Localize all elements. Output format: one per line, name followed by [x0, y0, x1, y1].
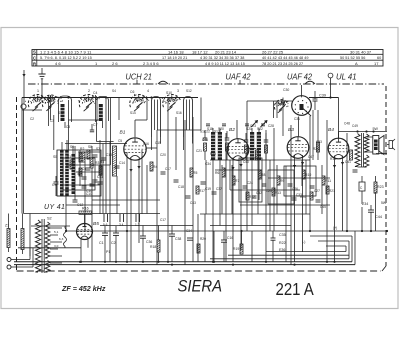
tube B3 grid top lead	[298, 117, 300, 137]
svg-text:C31: C31	[294, 117, 300, 121]
top wire pot to B4 grid	[309, 97, 339, 99]
svg-text:R15: R15	[210, 152, 216, 156]
tube B1 (UCH 21)	[124, 138, 146, 160]
wire hop on chassis line	[158, 81, 315, 84]
loudspeaker cone	[379, 136, 384, 155]
label C6	[130, 90, 134, 94]
tube label UCH 21	[126, 72, 152, 81]
capacitor C37	[212, 187, 223, 194]
svg-text:R23: R23	[377, 185, 384, 189]
label C33	[316, 140, 322, 144]
speaker secondary wire	[367, 137, 373, 152]
tube B1 cathode legs	[131, 159, 139, 263]
switch contact group 5-6	[103, 214, 108, 227]
tick under UCH 21 label	[136, 80, 138, 84]
antenna lead-in wire	[23, 77, 25, 104]
wire vertical x110	[109, 142, 111, 262]
svg-text:C30: C30	[283, 88, 289, 92]
svg-text:C16: C16	[227, 236, 233, 240]
wire detector net d	[276, 165, 278, 214]
svg-text:C48: C48	[344, 122, 350, 126]
wire vertical x286	[285, 166, 287, 262]
svg-text:5W: 5W	[373, 127, 379, 131]
bottom vertical x252	[251, 231, 253, 262]
switch position digit 3	[177, 89, 179, 93]
svg-text:C6: C6	[130, 90, 134, 94]
wire horizontal y120 left	[69, 120, 100, 142]
wire vertical x147	[146, 98, 148, 121]
svg-text:R3: R3	[95, 161, 99, 165]
svg-text:3,0: 3,0	[54, 244, 59, 248]
aerial coil S1 winding	[61, 104, 65, 121]
resistor R10	[302, 170, 311, 179]
alignment arrow at IFT1	[251, 120, 258, 127]
chassis boundary right dashed line	[382, 86, 386, 271]
capacitor C3	[86, 163, 95, 170]
svg-text:30 31 40 37: 30 31 40 37	[350, 50, 372, 55]
mains transformer heater winding	[45, 261, 50, 273]
svg-text:S11: S11	[58, 111, 64, 115]
label C10c	[86, 192, 92, 196]
capacitor C cathode B4	[353, 170, 358, 172]
label R22	[279, 241, 286, 245]
bus nested corner verticals	[346, 231, 355, 265]
tube B2 diode lead	[247, 148, 256, 150]
svg-text:C16: C16	[143, 142, 149, 146]
svg-text:S12: S12	[186, 89, 192, 93]
table row S values	[40, 50, 372, 55]
label S16	[176, 111, 182, 115]
oscillator network box a	[57, 150, 101, 196]
detector network box a	[239, 158, 262, 202]
wire vertical x291	[290, 125, 292, 265]
svg-text:C37: C37	[216, 187, 222, 191]
ground symbol	[38, 68, 45, 79]
svg-text:C43: C43	[190, 201, 196, 205]
label C34	[205, 162, 211, 166]
wire horizontal y225 left	[100, 225, 193, 227]
alignment arrow at IFT2	[261, 120, 268, 127]
IF transformer 1 secondary winding S19	[218, 132, 222, 160]
svg-text:6,3: 6,3	[59, 237, 64, 241]
svg-text:S10: S10	[166, 91, 172, 95]
top HT wire	[22, 97, 198, 99]
resistor R5	[190, 168, 197, 177]
output transformer bottom wire	[358, 153, 388, 167]
svg-text:C13: C13	[106, 153, 112, 157]
svg-text:50 51 52 55 56: 50 51 52 55 56	[340, 56, 365, 60]
capacitor C12b	[90, 184, 95, 186]
svg-text:S8: S8	[88, 145, 92, 149]
wire vertical x193 bottom	[192, 231, 194, 262]
oscillator coil label S5	[53, 155, 57, 159]
bottom cluster component C35	[271, 231, 276, 262]
resistor R2	[80, 147, 85, 162]
tube B1 label	[120, 130, 126, 136]
svg-text:C21: C21	[196, 149, 202, 153]
junction dots on y231	[309, 230, 388, 232]
resistor R3b	[87, 150, 90, 159]
svg-text:R2: R2	[80, 147, 84, 151]
svg-text:S13: S13	[214, 130, 220, 134]
label C28	[268, 124, 274, 128]
AVC network box	[284, 166, 316, 196]
tube label UAF 42 (first)	[226, 72, 252, 81]
svg-text:E36: E36	[279, 248, 285, 252]
wire vertical x66	[65, 196, 67, 231]
capacitor C11	[93, 175, 104, 182]
label S11	[58, 111, 64, 115]
svg-text:R4: R4	[153, 165, 157, 169]
svg-text:UCH 21: UCH 21	[126, 72, 152, 81]
wire horizontal y205	[240, 204, 330, 206]
svg-text:3: 3	[177, 89, 179, 93]
svg-text:78 20 21 23 24 25 26 27: 78 20 21 23 24 25 26 27	[262, 62, 303, 66]
wire horizontal y165	[66, 164, 110, 166]
oscillator padder coil winding	[72, 154, 76, 194]
wire horizontal y185 left	[60, 184, 100, 186]
RF coil S4 leads	[103, 97, 111, 214]
resistor R4	[150, 162, 157, 171]
svg-text:60: 60	[377, 56, 381, 60]
capacitor C17	[161, 167, 172, 174]
svg-text:5 6: 5 6	[103, 223, 108, 227]
svg-text:C10: C10	[86, 192, 92, 196]
svg-text:UL 41: UL 41	[336, 72, 357, 81]
oscillator coil loop S9	[184, 97, 193, 138]
switch S2 label	[47, 217, 52, 221]
resistor R21	[326, 186, 335, 194]
wire detector net e	[301, 160, 303, 186]
wire vertical x193	[192, 117, 194, 231]
capacitor C44	[368, 210, 382, 219]
resistor R4b	[99, 166, 102, 175]
label C47	[308, 155, 314, 159]
tube B2 label	[229, 127, 235, 133]
label S12 row	[200, 130, 220, 134]
resistor R cathode B3	[317, 142, 320, 152]
junction dots on y231 left	[65, 230, 243, 266]
wire vertical x310	[309, 116, 311, 231]
wire vertical x127	[126, 152, 128, 262]
junction dots on top wire	[41, 96, 332, 98]
label C34b	[186, 229, 192, 233]
wire detector net c	[257, 160, 259, 214]
wave-change switch S3 wafer	[78, 94, 100, 122]
tube B4 cathode legs	[335, 156, 343, 263]
wire vertical x30	[29, 214, 31, 257]
tube B5 label	[93, 221, 99, 227]
label C49	[352, 124, 358, 128]
external speaker socket	[387, 139, 395, 150]
svg-text:4: 4	[147, 89, 149, 93]
resistor R cathode B2	[256, 150, 259, 160]
wire vertical x283	[282, 98, 284, 137]
svg-text:S7: S7	[96, 147, 100, 151]
svg-text:A: A	[355, 61, 358, 66]
capacitor C10b	[93, 155, 98, 157]
svg-text:R18: R18	[150, 245, 156, 249]
svg-text:C25: C25	[266, 189, 272, 193]
wire horizontal y190	[230, 189, 300, 191]
svg-text:2 3 4 5 6: 2 3 4 5 6	[143, 61, 159, 66]
wire vertical x206	[205, 160, 207, 214]
wire horizontal y214 right	[200, 213, 310, 215]
resistor R20	[300, 192, 313, 200]
label S8	[88, 145, 92, 149]
label R3c	[100, 160, 104, 164]
trimmer C7 label	[93, 123, 98, 127]
oscillator coil S9 inner winding	[187, 100, 190, 131]
wire horizontal y196 left	[57, 195, 100, 197]
IFT2 grid trimmer stack	[244, 133, 249, 160]
wire osc h3	[66, 204, 120, 206]
svg-text:R: R	[33, 61, 36, 66]
switch contact group 3-4	[119, 214, 124, 227]
capacitor C16 label	[143, 142, 149, 146]
resistor R20 bottom	[197, 244, 200, 253]
svg-text:C7: C7	[93, 123, 98, 127]
output transformer hum-bucking winding	[364, 155, 369, 167]
resistor R19	[233, 231, 243, 254]
svg-text:C3: C3	[90, 163, 94, 167]
capacitor C27	[310, 186, 321, 193]
tube B4 anode lead to output transformer	[338, 132, 340, 139]
IF transformer 1 primary winding S18	[211, 132, 215, 160]
svg-text:C5: C5	[118, 139, 122, 143]
svg-text:B4: B4	[328, 127, 334, 133]
wire horizontal y170	[215, 169, 262, 171]
oscillator coil top leads	[62, 140, 73, 154]
wire vertical x117	[116, 176, 118, 214]
svg-text:Z34: Z34	[362, 202, 368, 206]
IFT1 anode trimmer stack	[225, 131, 230, 160]
svg-text:B1: B1	[120, 130, 126, 136]
capacitor C18	[174, 180, 185, 189]
tube B4 electrode arrows	[333, 162, 344, 168]
wire vertical x274	[273, 128, 275, 231]
bus line fourth	[228, 254, 349, 256]
tube B1 anode side lead	[146, 147, 157, 149]
resistor R1	[67, 155, 73, 169]
label C31	[294, 117, 300, 121]
tube B5 leads	[81, 214, 88, 262]
mains wires	[17, 226, 81, 267]
caption SIERA	[178, 278, 223, 296]
svg-text:C4: C4	[93, 91, 97, 95]
wire horizontal y143	[65, 142, 127, 144]
switch position digit 2	[88, 89, 90, 93]
wire vertical x230	[229, 160, 231, 190]
volume control potentiometer	[292, 85, 312, 116]
capacitor C45	[316, 200, 327, 209]
capacitor C10	[82, 186, 93, 193]
svg-text:1 2 3 4 5 6 4 8 10 15 7 9 11: 1 2 3 4 5 6 4 8 10 15 7 9 11	[40, 50, 92, 55]
svg-text:17: 17	[374, 61, 379, 66]
capacitor C9	[54, 176, 59, 196]
svg-text:R17: R17	[199, 189, 205, 193]
switch contact group 1-2	[135, 214, 140, 227]
table row R values	[55, 61, 379, 66]
label C3t	[50, 119, 54, 123]
speaker power label 5W	[373, 127, 379, 131]
wire horizontal y231 long	[66, 230, 387, 232]
svg-text:C35: C35	[279, 233, 286, 237]
aerial coil S1 leads	[65, 100, 69, 150]
label C8	[66, 125, 70, 129]
resistor R6	[215, 168, 225, 177]
table row S header	[33, 50, 36, 55]
IF transformer 1 leads	[213, 128, 220, 262]
svg-text:(-): (-)	[302, 240, 305, 244]
tube B4 (UL 41)	[328, 138, 349, 159]
wave-change switch S7 wafer	[130, 94, 149, 111]
resistor R2b	[79, 153, 82, 162]
wire horizontal y178	[268, 177, 330, 179]
capacitor C33b	[292, 193, 303, 200]
svg-text:5W: 5W	[381, 201, 387, 205]
resistor R3	[90, 158, 99, 168]
capacitor C19	[201, 182, 212, 191]
label S12	[186, 89, 192, 93]
svg-text:C20: C20	[160, 153, 166, 157]
label S6	[70, 145, 74, 149]
wire vertical x347	[346, 133, 348, 231]
capacitor C16 bottom	[221, 231, 233, 262]
wave-change switch S1 wafer	[25, 94, 49, 111]
tube B3 electrode arrows	[293, 162, 304, 168]
svg-text:S14: S14	[130, 111, 136, 115]
svg-text:14 16 18: 14 16 18	[168, 50, 184, 55]
svg-text:C38: C38	[175, 237, 181, 241]
svg-text:C40: C40	[243, 160, 249, 164]
wire vertical x313	[312, 110, 314, 160]
capacitor C42 box	[359, 182, 365, 191]
svg-text:C26: C26	[292, 187, 298, 191]
wave-change switch S9 wafer	[161, 94, 180, 111]
IF transformer 2 primary winding S20	[250, 132, 254, 160]
svg-text:C15: C15	[155, 141, 161, 145]
vertical wire x205 bottom	[204, 214, 206, 262]
oscillator coil S6 winding	[65, 150, 69, 196]
svg-text:C34: C34	[186, 229, 192, 233]
svg-text:B5: B5	[93, 221, 99, 227]
mains transformer HT secondary winding	[45, 222, 50, 258]
bus nested corner horizontals	[310, 236, 352, 246]
svg-text:R21: R21	[329, 189, 335, 193]
wire vertical x306	[305, 160, 307, 214]
table row C header	[33, 55, 36, 60]
output transformer secondary winding	[364, 134, 369, 152]
antenna wire below terminal	[23, 109, 25, 213]
wire vertical x201	[200, 98, 202, 131]
chassis bus line lower	[14, 264, 355, 266]
svg-text:C24: C24	[247, 181, 253, 185]
voltage selector contact strip a	[7, 229, 10, 248]
svg-text:3 4: 3 4	[119, 223, 124, 227]
svg-text:C27: C27	[314, 189, 320, 193]
table row C values	[40, 56, 381, 60]
wire horizontal y200	[92, 199, 160, 201]
wire horizontal y225 right	[210, 225, 291, 227]
svg-text:C36: C36	[146, 240, 152, 244]
tube B4 label	[328, 127, 334, 133]
svg-text:S2: S2	[47, 217, 52, 221]
wire vertical left rail	[21, 98, 23, 214]
wire vertical x247	[247, 101, 292, 231]
pick-up terminal circle beside UL 41	[328, 73, 333, 97]
svg-text:5,1: 5,1	[54, 230, 59, 234]
5W power label	[381, 201, 387, 205]
wire vertical x103	[102, 144, 104, 214]
svg-text:S16: S16	[176, 111, 182, 115]
svg-text:S22: S22	[257, 127, 263, 131]
capacitor C26	[288, 184, 299, 191]
mains transformer primary winding	[35, 220, 40, 272]
antenna terminal arrow	[22, 70, 25, 77]
RF coupling coil loop S7	[152, 97, 161, 138]
wire vertical x75	[74, 146, 76, 200]
svg-text:R19: R19	[233, 247, 239, 251]
svg-text:C41: C41	[345, 160, 351, 164]
svg-text:SIERA: SIERA	[178, 278, 223, 296]
svg-text:(+): (+)	[333, 226, 337, 230]
tube B2 cathode legs	[233, 158, 241, 263]
capacitor C43	[186, 196, 197, 205]
capacitor C5b	[78, 167, 87, 174]
tube B3 label	[288, 127, 294, 133]
wire vertical x142	[141, 150, 143, 214]
svg-text:S6: S6	[70, 145, 74, 149]
output transformer core	[362, 133, 364, 167]
tube B3 cathode legs	[295, 155, 303, 262]
label S10	[166, 91, 172, 95]
voltage selector wires	[9, 214, 23, 255]
caption 221 A	[276, 280, 314, 299]
svg-text:R14: R14	[330, 157, 336, 161]
padder capacitor C12	[73, 200, 84, 207]
wire detector net f	[321, 165, 323, 214]
tube B4 grid top lead	[338, 98, 340, 138]
wire vertical x119 grid	[118, 98, 120, 121]
label S14	[130, 111, 136, 115]
wire vertical x85b	[84, 162, 86, 231]
wire vertical x270	[269, 160, 271, 231]
label C5t	[118, 139, 122, 143]
label plus	[333, 226, 337, 230]
RF coupling coil S7 tails	[152, 137, 161, 150]
label C35	[279, 233, 286, 237]
label C41	[345, 160, 351, 164]
RF coil S4 loop	[97, 97, 109, 122]
label C46	[202, 138, 208, 142]
svg-text:C17: C17	[160, 218, 166, 222]
pick-up terminal node	[21, 104, 26, 109]
voltage selector Z1 label	[5, 224, 9, 228]
RF coupling coil S7 inner winding	[155, 100, 158, 131]
svg-text:1: 1	[37, 89, 39, 93]
wire vertical x100	[99, 140, 101, 214]
svg-text:C39: C39	[319, 94, 326, 98]
capacitor C34 bottom	[187, 238, 193, 240]
wave-change switch S2 wafer	[42, 95, 63, 126]
svg-text:C49: C49	[352, 124, 358, 128]
resistor R cathode B4	[350, 150, 353, 160]
capacitor C38	[169, 226, 181, 262]
svg-text:C28: C28	[268, 124, 274, 128]
capacitor C25	[262, 184, 273, 193]
label E36	[279, 248, 285, 252]
